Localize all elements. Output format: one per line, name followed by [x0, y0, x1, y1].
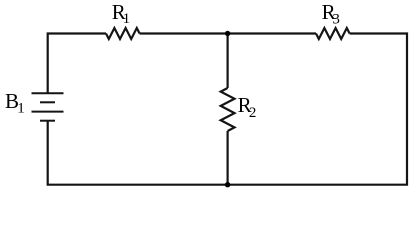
resistor R3 — [316, 28, 350, 39]
resistor R1 — [106, 28, 140, 39]
label R3 — [322, 0, 340, 27]
battery plate long — [32, 111, 64, 113]
wire: top node down to R2 — [227, 34, 229, 89]
wire: R3 to top-right corner, down right side, across bottom, up to battery negative plate — [48, 34, 407, 185]
label R2 — [238, 93, 257, 121]
resistor R2 — [221, 88, 235, 131]
battery plate short — [40, 101, 55, 103]
battery plate long (top) — [32, 92, 64, 94]
battery B1 — [32, 93, 64, 120]
label R1 — [112, 0, 130, 27]
battery plate short (bottom) — [40, 120, 55, 122]
wire: R1 right end to R3 left end, through top node — [140, 32, 316, 34]
svg-text:1: 1 — [123, 11, 131, 27]
svg-text:2: 2 — [249, 105, 257, 121]
svg-text:1: 1 — [17, 101, 25, 117]
node: bottom junction dot — [225, 182, 230, 187]
svg-text:3: 3 — [332, 11, 340, 27]
label B1 — [5, 89, 25, 117]
node: top junction dot — [225, 31, 230, 36]
wire: top-left corner up-and-right to R1, from battery positive plate — [48, 34, 106, 93]
wire: R2 down to bottom node — [227, 131, 229, 185]
